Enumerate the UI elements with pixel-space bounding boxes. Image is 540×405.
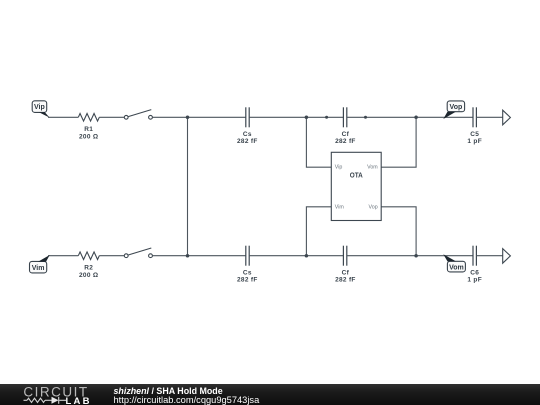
- wire R1 to switch: [99, 116, 124, 118]
- wire switch to node: [153, 116, 188, 118]
- svg-text:Cs: Cs: [243, 131, 252, 138]
- wire Cf to node bottom: [347, 255, 416, 257]
- op-amp OTA box: [331, 152, 381, 220]
- node top-left junction: [186, 116, 190, 120]
- resistor R2: [78, 252, 99, 260]
- capacitor Cs top: [246, 107, 249, 127]
- wire node to node: [306, 116, 326, 118]
- CircuitLab logo: [21, 384, 106, 405]
- node junction dots: [186, 116, 418, 258]
- wire OTA Vim feedback: [306, 207, 331, 256]
- wire Cs to node: [249, 116, 306, 118]
- svg-text:1 pF: 1 pF: [467, 277, 482, 284]
- net label Vom: [443, 254, 465, 272]
- svg-text:Vip: Vip: [34, 104, 45, 111]
- node top Vom feedback: [414, 116, 418, 120]
- svg-text:Vip: Vip: [335, 165, 343, 171]
- svg-text:282 fF: 282 fF: [237, 277, 258, 284]
- wire top input segment: [48, 116, 78, 118]
- svg-text:C6: C6: [470, 269, 479, 276]
- capacitor C5: [473, 107, 476, 127]
- wire joining sampling cap plates: [187, 117, 189, 255]
- wire Cf to node: [347, 116, 366, 118]
- svg-text:Vop: Vop: [450, 104, 463, 111]
- wire OTA Vom feedback: [381, 117, 416, 167]
- svg-text:LAB: LAB: [66, 395, 92, 404]
- wire R2 to switch: [99, 255, 124, 257]
- node top Vip feedback: [305, 116, 309, 120]
- svg-text:R1: R1: [84, 126, 93, 133]
- capacitor Cf bottom: [343, 246, 346, 266]
- svg-text:Vim: Vim: [32, 265, 45, 272]
- svg-text:Vim: Vim: [335, 204, 345, 210]
- wire OTA Vip feedback: [306, 117, 331, 167]
- svg-text:282 fF: 282 fF: [335, 138, 356, 145]
- wire bottom input segment: [48, 255, 78, 257]
- wire OTA Vop feedback: [381, 207, 416, 256]
- wire node to C6: [416, 255, 473, 257]
- node bottom Vim feedback: [305, 254, 309, 258]
- wire node to Cs top: [188, 116, 246, 118]
- output pin arrow bottom: [503, 249, 511, 264]
- net label Vip: [32, 101, 49, 118]
- output pin arrow top: [503, 110, 511, 125]
- node top Cf left: [325, 116, 328, 119]
- wire node to node: [366, 116, 417, 118]
- switch SW1 top: [124, 110, 152, 120]
- node bottom Vop feedback: [414, 254, 418, 258]
- wire C6 to output pin: [476, 255, 502, 257]
- op-amp OTA labels: [335, 165, 378, 211]
- svg-text:200 Ω: 200 Ω: [79, 133, 98, 140]
- svg-text:1 pF: 1 pF: [467, 138, 482, 145]
- svg-text:Cf: Cf: [342, 131, 350, 138]
- svg-text:Vom: Vom: [367, 165, 378, 171]
- svg-text:Vom: Vom: [449, 264, 464, 271]
- wire switch to node bottom: [153, 255, 188, 257]
- wire node to Cf top: [327, 116, 344, 118]
- resistor R1: [78, 114, 99, 122]
- capacitor Cs bottom: [246, 246, 249, 266]
- svg-text:C5: C5: [470, 131, 479, 138]
- capacitor Cf top: [343, 107, 346, 127]
- svg-text:OTA: OTA: [350, 173, 363, 180]
- svg-text:282 fF: 282 fF: [237, 138, 258, 145]
- net label Vop: [443, 101, 464, 119]
- node bottom-left junction: [186, 254, 190, 258]
- svg-text:200 Ω: 200 Ω: [79, 272, 98, 279]
- wire C5 to output pin: [476, 116, 502, 118]
- wire node to Cs bottom: [188, 255, 246, 257]
- svg-text:282 fF: 282 fF: [335, 277, 356, 284]
- svg-text:Cs: Cs: [243, 269, 252, 276]
- svg-text:Cf: Cf: [342, 269, 350, 276]
- node top Cf right: [364, 116, 367, 119]
- wire Cs to node bottom: [249, 255, 306, 257]
- wire node to C5: [416, 116, 473, 118]
- svg-text:R2: R2: [84, 264, 93, 271]
- svg-text:Vop: Vop: [369, 204, 378, 210]
- net label Vim: [30, 255, 50, 273]
- wire across bottom: [306, 255, 343, 257]
- capacitor C6: [473, 246, 476, 266]
- switch SW2 bottom: [124, 248, 152, 258]
- footer bar: [0, 384, 540, 405]
